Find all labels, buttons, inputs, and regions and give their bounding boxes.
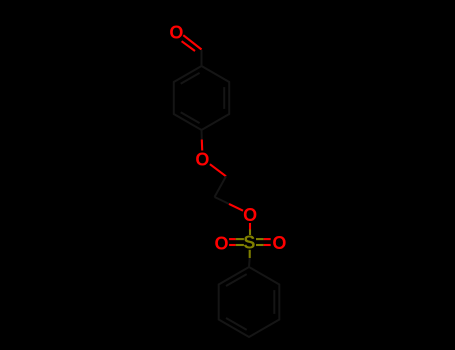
aromatic inner line, right edge (223, 87, 225, 109)
phenyl ring (bottom) (219, 267, 280, 337)
bond O-S, olive half (249, 230, 251, 236)
aromatic inner line, bottom-left edge (226, 318, 247, 330)
bond ring bottom to ether O, black half (201, 130, 203, 140)
bond S to phenyl, olive half (249, 250, 251, 258)
bond CH2-CH2 (215, 176, 227, 197)
svg-text:O: O (195, 149, 209, 169)
aromatic inner line, right edge (273, 290, 275, 314)
bond ring bottom to ether O, red half (201, 140, 203, 151)
benzene ring (top, 4-substituted) (174, 66, 229, 130)
bond CH2 to sulfonate O, black half (215, 197, 230, 204)
svg-text:O: O (243, 205, 257, 225)
aromatic inner line, top-left edge (226, 274, 247, 286)
right S=O double bond lines (256, 239, 271, 245)
aromatic inner line, top-left edge (181, 73, 200, 84)
bond CHO carbon to ring top vertex (201, 50, 203, 66)
bond ether O to CH2 (red) (210, 164, 226, 176)
aromatic inner line, bottom-left edge (181, 112, 200, 123)
left S=O double bond lines (229, 239, 244, 245)
bond S to phenyl, black half (248, 258, 251, 267)
aldehyde C=O double bond (red) (182, 35, 202, 51)
svg-text:O: O (169, 23, 183, 43)
svg-text:O: O (272, 233, 286, 253)
bond O-S, red half (249, 223, 251, 230)
svg-text:S: S (243, 233, 255, 253)
svg-text:O: O (214, 233, 228, 253)
bond CH2 to sulfonate O, red half (229, 204, 243, 211)
